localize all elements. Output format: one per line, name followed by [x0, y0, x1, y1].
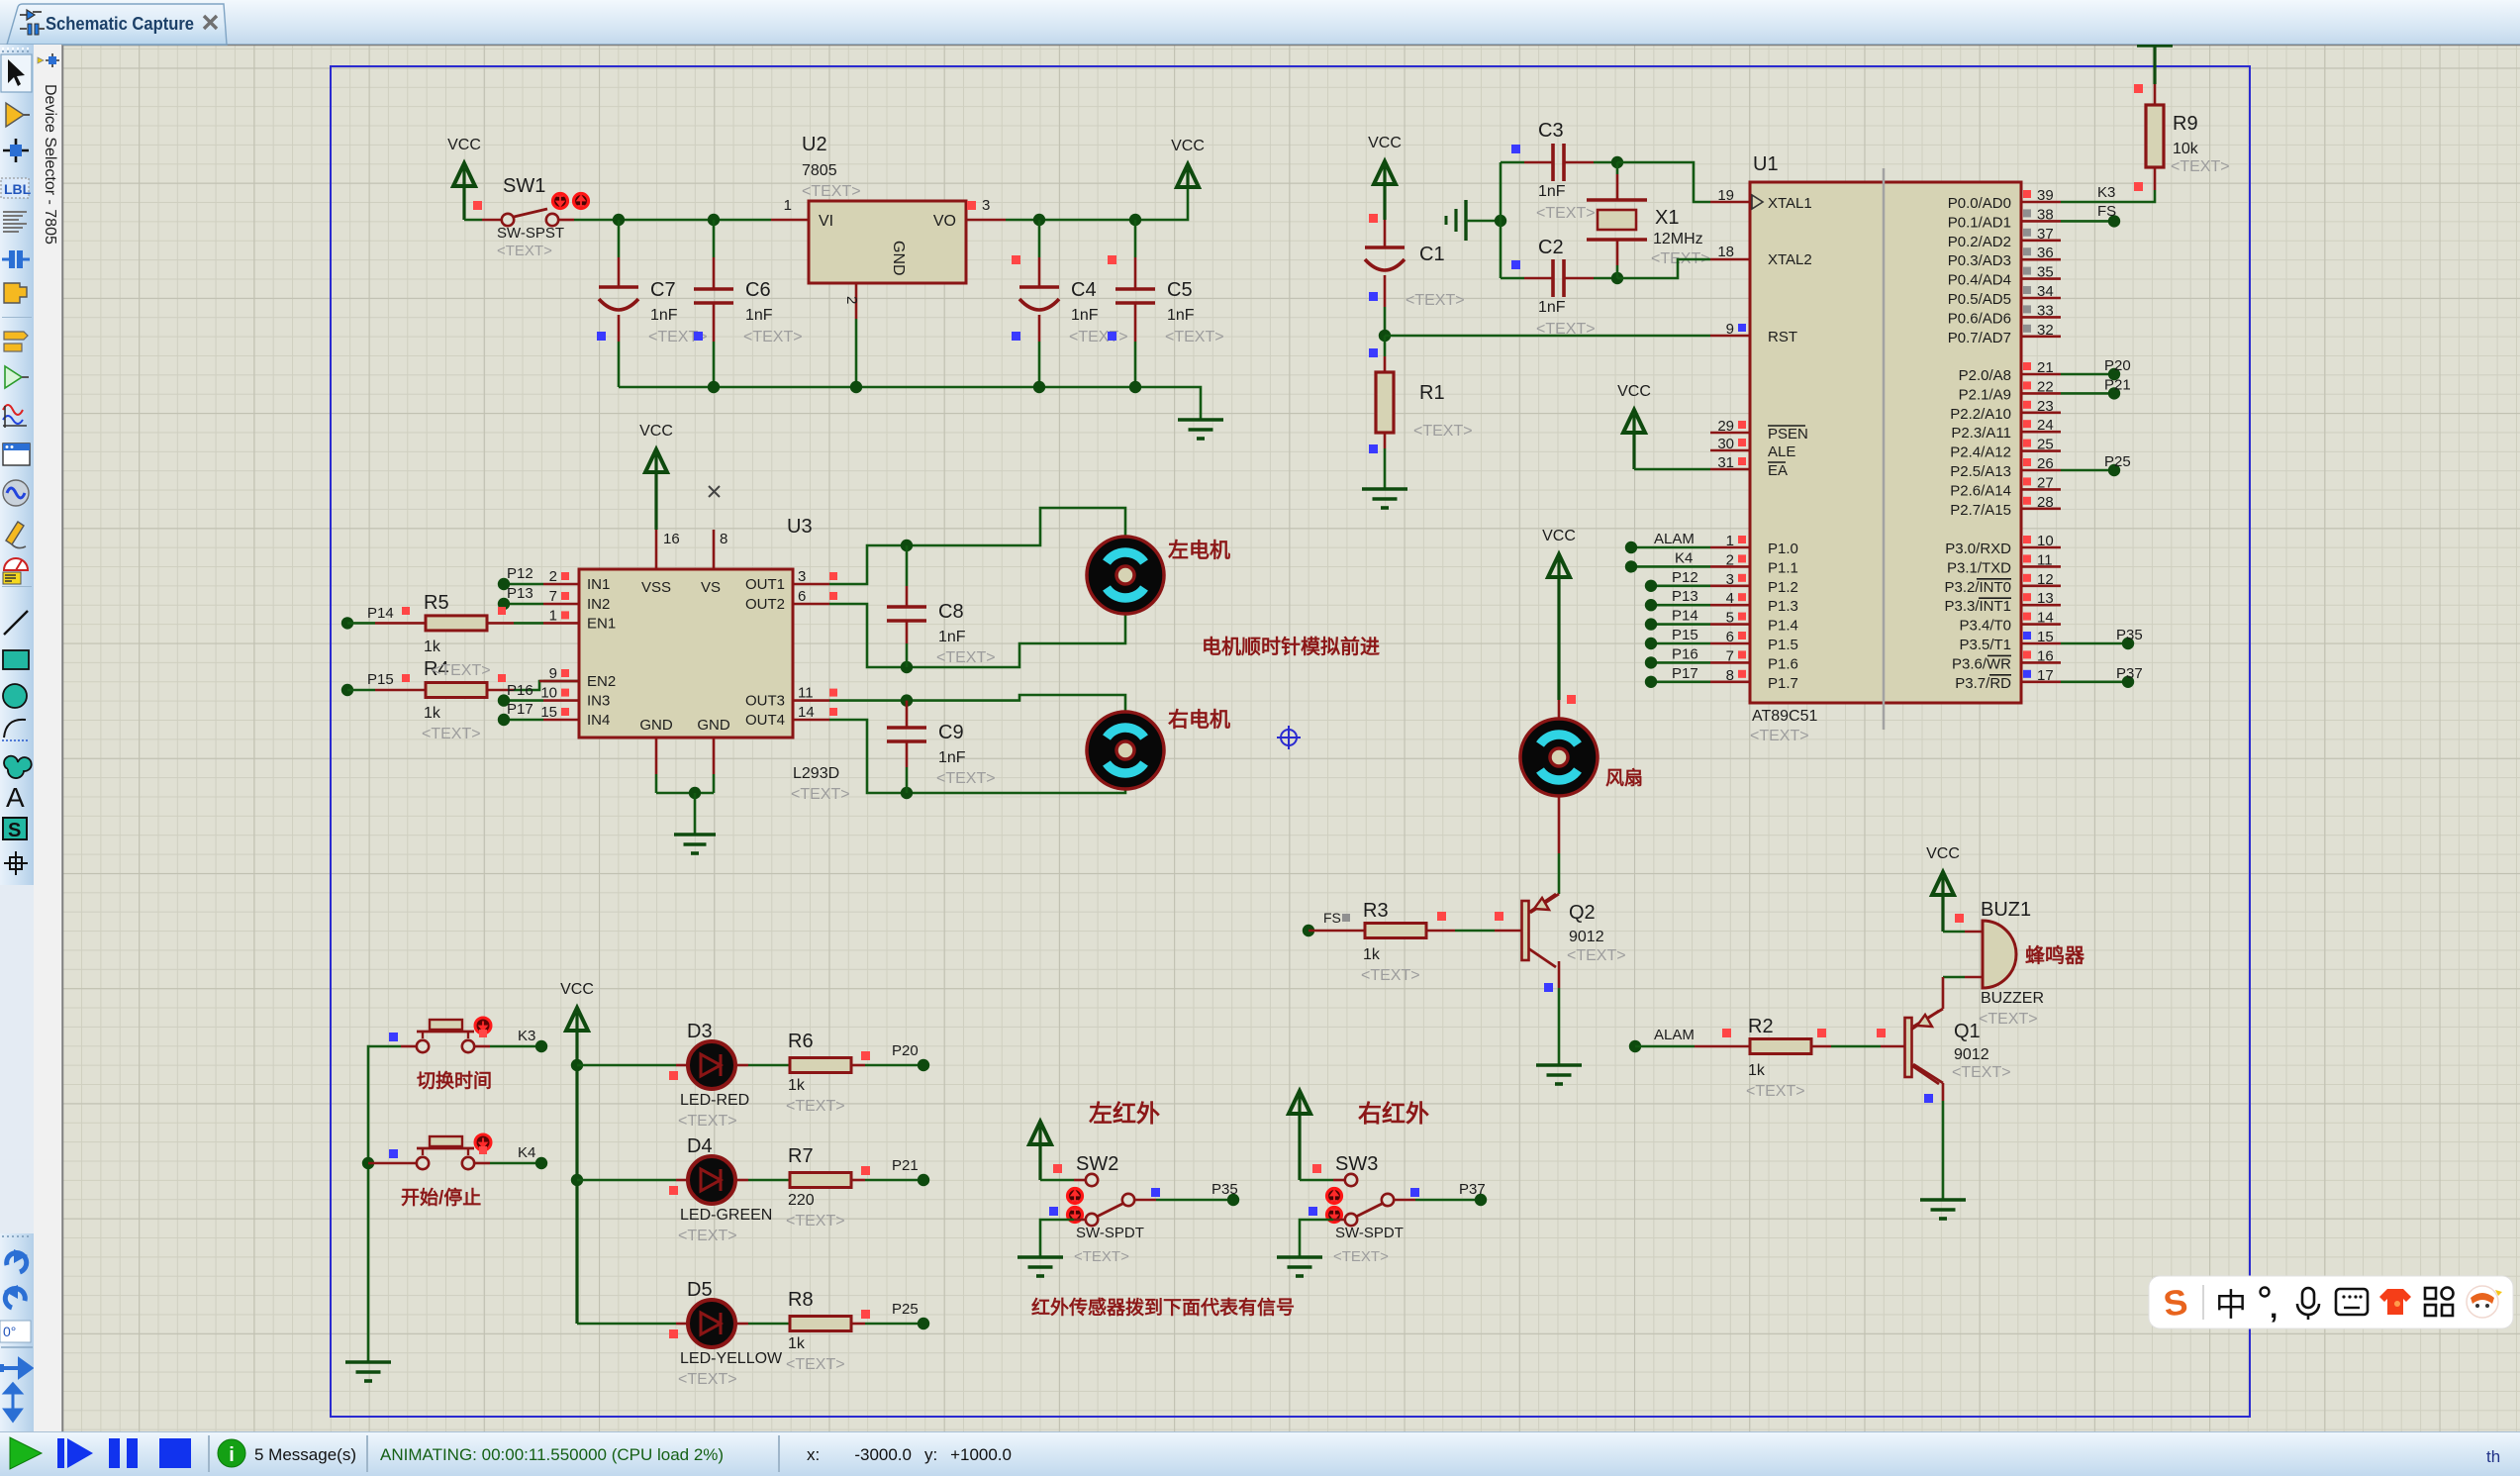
- svg-text:9: 9: [549, 665, 557, 682]
- svg-text:EN1: EN1: [587, 615, 616, 632]
- svg-text:FS: FS: [1323, 910, 1341, 926]
- svg-text:P2.4/A12: P2.4/A12: [1950, 444, 2011, 461]
- svg-text:P25: P25: [2104, 453, 2131, 470]
- svg-text:<TEXT>: <TEXT>: [1413, 423, 1473, 440]
- svg-text:P0.7/AD7: P0.7/AD7: [1948, 330, 2011, 346]
- svg-text:<TEXT>: <TEXT>: [497, 243, 552, 259]
- svg-text:P20: P20: [2104, 357, 2131, 374]
- svg-text:P14: P14: [367, 605, 394, 622]
- svg-text:ANIMATING: 00:00:11.550000 (CP: ANIMATING: 00:00:11.550000 (CPU load 2%): [380, 1445, 724, 1464]
- svg-text:<TEXT>: <TEXT>: [1333, 1248, 1389, 1265]
- svg-text:P3.1/TXD: P3.1/TXD: [1947, 559, 2011, 576]
- svg-text:2: 2: [843, 296, 860, 304]
- svg-text:K3: K3: [518, 1028, 535, 1044]
- svg-text:GND: GND: [697, 717, 730, 734]
- svg-text:P16: P16: [507, 682, 533, 699]
- svg-text:220: 220: [788, 1192, 815, 1209]
- svg-text:IN3: IN3: [587, 693, 610, 710]
- svg-text:VCC: VCC: [1368, 135, 1402, 151]
- svg-text:<TEXT>: <TEXT>: [743, 329, 803, 345]
- svg-text:P0.1/AD1: P0.1/AD1: [1948, 214, 2011, 231]
- svg-text:<TEXT>: <TEXT>: [936, 770, 996, 787]
- svg-text:K4: K4: [1675, 549, 1693, 566]
- svg-text:C1: C1: [1419, 244, 1445, 265]
- svg-text:IN1: IN1: [587, 576, 610, 593]
- svg-text:P21: P21: [2104, 376, 2131, 393]
- svg-text:中: 中: [2215, 1287, 2247, 1323]
- svg-text:P2.7/A15: P2.7/A15: [1950, 502, 2011, 519]
- svg-text:18: 18: [1717, 244, 1734, 260]
- svg-text:1k: 1k: [1748, 1062, 1766, 1079]
- svg-text:<TEXT>: <TEXT>: [1361, 967, 1420, 984]
- svg-text:P3.3/INT1: P3.3/INT1: [1944, 598, 2011, 615]
- svg-text:<TEXT>: <TEXT>: [1567, 947, 1626, 964]
- svg-text:P15: P15: [1672, 627, 1698, 643]
- svg-text:VCC: VCC: [639, 423, 673, 440]
- svg-text:SW3: SW3: [1335, 1153, 1378, 1175]
- svg-text:1nF: 1nF: [938, 629, 966, 645]
- svg-text:P17: P17: [507, 701, 533, 718]
- svg-text:0°: 0°: [3, 1324, 16, 1339]
- svg-text:U2: U2: [802, 134, 827, 155]
- svg-text:VCC: VCC: [1171, 138, 1205, 154]
- svg-text:P17: P17: [1672, 665, 1698, 682]
- svg-text:1k: 1k: [788, 1077, 806, 1094]
- svg-text:2: 2: [549, 568, 557, 585]
- svg-text:Q1: Q1: [1954, 1021, 1981, 1042]
- svg-text:SW-SPDT: SW-SPDT: [1076, 1225, 1144, 1241]
- svg-text:31: 31: [1717, 454, 1734, 471]
- svg-text:<TEXT>: <TEXT>: [678, 1228, 737, 1244]
- svg-text:SW-SPDT: SW-SPDT: [1335, 1225, 1404, 1241]
- svg-text:D4: D4: [687, 1135, 713, 1157]
- svg-text:BUZZER: BUZZER: [1981, 990, 2044, 1007]
- svg-text:P3.5/T1: P3.5/T1: [1959, 637, 2011, 653]
- svg-text:C6: C6: [745, 279, 771, 301]
- svg-text:th: th: [2486, 1447, 2500, 1466]
- svg-text:1: 1: [549, 607, 557, 624]
- svg-text:P13: P13: [507, 585, 533, 602]
- svg-text:A: A: [6, 782, 25, 813]
- svg-text:7805: 7805: [802, 162, 837, 179]
- svg-text:9012: 9012: [1569, 929, 1604, 945]
- svg-text:<TEXT>: <TEXT>: [2171, 158, 2230, 175]
- svg-text:,: ,: [2270, 1292, 2278, 1325]
- svg-text:<TEXT>: <TEXT>: [1750, 728, 1809, 744]
- svg-text:P0.6/AD6: P0.6/AD6: [1948, 310, 2011, 327]
- svg-text:ALAM: ALAM: [1654, 531, 1695, 547]
- svg-text:10: 10: [540, 685, 557, 702]
- svg-text:R8: R8: [788, 1289, 814, 1311]
- svg-text:R7: R7: [788, 1145, 814, 1167]
- svg-text:P12: P12: [1672, 569, 1698, 586]
- svg-text:P20: P20: [892, 1042, 919, 1059]
- svg-text:10k: 10k: [2173, 141, 2199, 157]
- svg-text:P12: P12: [507, 565, 533, 582]
- svg-text:3: 3: [982, 197, 990, 214]
- svg-text:<TEXT>: <TEXT>: [802, 183, 861, 200]
- svg-text:P16: P16: [1672, 645, 1698, 662]
- svg-text:<TEXT>: <TEXT>: [786, 1098, 845, 1115]
- svg-text:1nF: 1nF: [650, 307, 678, 324]
- svg-text:P1.3: P1.3: [1768, 598, 1798, 615]
- svg-text:Schematic Capture: Schematic Capture: [46, 13, 194, 34]
- svg-text:左红外: 左红外: [1089, 1100, 1160, 1128]
- svg-text:<TEXT>: <TEXT>: [786, 1356, 845, 1373]
- svg-text:VCC: VCC: [1542, 528, 1576, 544]
- svg-text:U1: U1: [1753, 153, 1779, 175]
- svg-text:R6: R6: [788, 1031, 814, 1052]
- svg-text:PSEN: PSEN: [1768, 426, 1808, 443]
- svg-text:<TEXT>: <TEXT>: [422, 726, 481, 742]
- svg-text:C5: C5: [1167, 279, 1193, 301]
- svg-text:<TEXT>: <TEXT>: [936, 649, 996, 666]
- svg-text:GND: GND: [890, 241, 907, 276]
- svg-text:P2.5/A13: P2.5/A13: [1950, 463, 2011, 480]
- svg-text:右红外: 右红外: [1358, 1100, 1429, 1128]
- svg-text:14: 14: [798, 704, 815, 721]
- svg-text:OUT4: OUT4: [745, 712, 785, 729]
- svg-text:风扇: 风扇: [1605, 766, 1643, 789]
- svg-text:P2.0/A8: P2.0/A8: [1959, 367, 2011, 384]
- svg-text:VSS: VSS: [641, 579, 671, 596]
- svg-text:P0.3/AD3: P0.3/AD3: [1948, 252, 2011, 269]
- svg-text:P1.1: P1.1: [1768, 559, 1798, 576]
- svg-text:P37: P37: [1459, 1181, 1486, 1198]
- svg-text:<TEXT>: <TEXT>: [1979, 1011, 2038, 1028]
- svg-text:1nF: 1nF: [1538, 299, 1566, 316]
- svg-text:EN2: EN2: [587, 673, 616, 690]
- svg-text:VI: VI: [819, 213, 833, 230]
- svg-text:K3: K3: [2097, 184, 2115, 201]
- svg-text:P1.4: P1.4: [1768, 618, 1798, 635]
- svg-text:1k: 1k: [788, 1335, 806, 1352]
- svg-text:K4: K4: [518, 1144, 535, 1161]
- svg-text:<TEXT>: <TEXT>: [1405, 292, 1465, 309]
- svg-text:VO: VO: [933, 213, 956, 230]
- svg-text:P2.2/A10: P2.2/A10: [1950, 406, 2011, 423]
- svg-text:P3.7/RD: P3.7/RD: [1955, 675, 2011, 692]
- svg-text:P0.5/AD5: P0.5/AD5: [1948, 291, 2011, 308]
- svg-text:VCC: VCC: [1926, 845, 1960, 862]
- svg-text:OUT1: OUT1: [745, 576, 785, 593]
- svg-text:切换时间: 切换时间: [417, 1069, 492, 1092]
- svg-text:XTAL2: XTAL2: [1768, 251, 1812, 268]
- svg-text:12MHz: 12MHz: [1653, 231, 1703, 247]
- svg-text:P3.0/RXD: P3.0/RXD: [1945, 541, 2011, 557]
- svg-text:P1.6: P1.6: [1768, 655, 1798, 672]
- svg-text:GND: GND: [639, 717, 673, 734]
- svg-text:P1.0: P1.0: [1768, 541, 1798, 557]
- svg-text:15: 15: [540, 704, 557, 721]
- svg-text:P14: P14: [1672, 608, 1698, 625]
- svg-text:C3: C3: [1538, 120, 1564, 142]
- svg-text:OUT3: OUT3: [745, 693, 785, 710]
- svg-text:1nF: 1nF: [1538, 183, 1566, 200]
- svg-text:i: i: [229, 1444, 235, 1466]
- svg-text:P35: P35: [1212, 1181, 1238, 1198]
- svg-text:D5: D5: [687, 1279, 713, 1301]
- svg-text:16: 16: [663, 531, 680, 547]
- svg-text:P2.6/A14: P2.6/A14: [1950, 482, 2011, 499]
- svg-text:<TEXT>: <TEXT>: [1746, 1083, 1805, 1100]
- svg-text:ALE: ALE: [1768, 443, 1795, 460]
- svg-text:左电机: 左电机: [1168, 539, 1230, 562]
- svg-text:P13: P13: [1672, 588, 1698, 605]
- svg-text:开始/停止: 开始/停止: [401, 1186, 481, 1209]
- svg-text:P3.6/WR: P3.6/WR: [1952, 655, 2011, 672]
- svg-text:P3.4/T0: P3.4/T0: [1959, 618, 2011, 635]
- svg-text:<TEXT>: <TEXT>: [786, 1213, 845, 1230]
- svg-text:19: 19: [1717, 187, 1734, 204]
- svg-text:1nF: 1nF: [745, 307, 773, 324]
- svg-text:D3: D3: [687, 1021, 713, 1042]
- svg-text:ALAM: ALAM: [1654, 1027, 1695, 1043]
- svg-text:R1: R1: [1419, 382, 1445, 404]
- svg-text:SW1: SW1: [503, 175, 545, 197]
- svg-text:C7: C7: [650, 279, 676, 301]
- svg-text:OUT2: OUT2: [745, 596, 785, 613]
- svg-text:P1.2: P1.2: [1768, 579, 1798, 596]
- svg-text:R2: R2: [1748, 1016, 1774, 1037]
- svg-text:P0.4/AD4: P0.4/AD4: [1948, 272, 2011, 289]
- svg-text:LED-YELLOW: LED-YELLOW: [680, 1350, 783, 1367]
- svg-text:P37: P37: [2116, 665, 2143, 682]
- svg-text:RST: RST: [1768, 329, 1797, 345]
- svg-text:C4: C4: [1071, 279, 1097, 301]
- svg-text:FS: FS: [2097, 203, 2116, 220]
- svg-text:R3: R3: [1363, 900, 1389, 922]
- svg-text:9012: 9012: [1954, 1046, 1989, 1063]
- svg-text:<TEXT>: <TEXT>: [1952, 1064, 2011, 1081]
- svg-text:1nF: 1nF: [1167, 307, 1195, 324]
- svg-text:Device Selector - 7805: Device Selector - 7805: [42, 84, 58, 245]
- svg-text:电机顺时针模拟前进: 电机顺时针模拟前进: [1202, 635, 1380, 658]
- svg-text:P3.2/INT0: P3.2/INT0: [1944, 579, 2011, 596]
- svg-text:y:: y:: [924, 1445, 937, 1464]
- svg-text:AT89C51: AT89C51: [1752, 708, 1818, 725]
- svg-text:VCC: VCC: [447, 137, 481, 153]
- svg-text:X1: X1: [1655, 207, 1679, 229]
- svg-text:XTAL1: XTAL1: [1768, 195, 1812, 212]
- svg-text:VS: VS: [701, 579, 721, 596]
- svg-text:<TEXT>: <TEXT>: [791, 786, 850, 803]
- svg-text:8: 8: [720, 531, 727, 547]
- svg-text:U3: U3: [787, 516, 813, 538]
- svg-text:Q2: Q2: [1569, 902, 1596, 924]
- svg-text:1nF: 1nF: [1071, 307, 1099, 324]
- svg-text:P35: P35: [2116, 627, 2143, 643]
- svg-text:11: 11: [798, 685, 814, 702]
- svg-text:BUZ1: BUZ1: [1981, 899, 2031, 921]
- svg-text:IN4: IN4: [587, 712, 610, 729]
- svg-text:<TEXT>: <TEXT>: [432, 662, 491, 679]
- svg-text:-3000.0: -3000.0: [854, 1445, 912, 1464]
- svg-text:9: 9: [1726, 321, 1734, 338]
- svg-text:SW-SPST: SW-SPST: [497, 225, 564, 242]
- svg-text:VCC: VCC: [1617, 383, 1651, 400]
- svg-text:1nF: 1nF: [938, 749, 966, 766]
- svg-text:蜂鸣器: 蜂鸣器: [2025, 943, 2085, 967]
- svg-text:5 Message(s): 5 Message(s): [254, 1445, 356, 1464]
- svg-text:3: 3: [798, 568, 806, 585]
- svg-text:红外传感器拨到下面代表有信号: 红外传感器拨到下面代表有信号: [1031, 1296, 1295, 1319]
- svg-text:P0.0/AD0: P0.0/AD0: [1948, 195, 2011, 212]
- svg-text:P21: P21: [892, 1157, 919, 1174]
- svg-text:7: 7: [549, 588, 557, 605]
- svg-text:P25: P25: [892, 1301, 919, 1318]
- svg-text:P2.3/A11: P2.3/A11: [1951, 425, 2011, 442]
- svg-text:EA: EA: [1768, 462, 1788, 479]
- svg-text:<TEXT>: <TEXT>: [678, 1113, 737, 1130]
- svg-text:x:: x:: [807, 1445, 820, 1464]
- svg-text:LED-RED: LED-RED: [680, 1092, 749, 1109]
- svg-text:<TEXT>: <TEXT>: [678, 1371, 737, 1388]
- svg-text:S: S: [8, 820, 21, 841]
- svg-text:<TEXT>: <TEXT>: [1536, 205, 1596, 222]
- svg-text:P0.2/AD2: P0.2/AD2: [1948, 234, 2011, 250]
- svg-text:C9: C9: [938, 722, 964, 743]
- svg-text:R9: R9: [2173, 113, 2198, 135]
- svg-text:C8: C8: [938, 601, 964, 623]
- svg-text:C2: C2: [1538, 237, 1564, 258]
- svg-text:6: 6: [798, 588, 806, 605]
- svg-text:<TEXT>: <TEXT>: [1069, 329, 1128, 345]
- svg-text:P1.7: P1.7: [1768, 675, 1798, 692]
- svg-text:IN2: IN2: [587, 596, 610, 613]
- svg-text:1k: 1k: [424, 639, 441, 655]
- svg-text:L293D: L293D: [793, 765, 839, 782]
- svg-text:+1000.0: +1000.0: [950, 1445, 1012, 1464]
- svg-text:<TEXT>: <TEXT>: [1165, 329, 1224, 345]
- svg-text:P2.1/A9: P2.1/A9: [1959, 386, 2011, 403]
- svg-text:P1.5: P1.5: [1768, 637, 1798, 653]
- svg-text:右电机: 右电机: [1168, 708, 1230, 732]
- svg-text:1: 1: [784, 197, 792, 214]
- svg-text:1k: 1k: [1363, 946, 1381, 963]
- svg-text:LBL: LBL: [4, 181, 32, 197]
- svg-text:R5: R5: [424, 592, 449, 614]
- svg-text:LED-GREEN: LED-GREEN: [680, 1207, 772, 1224]
- svg-text:VCC: VCC: [560, 981, 594, 998]
- svg-text:1k: 1k: [424, 705, 441, 722]
- svg-text:SW2: SW2: [1076, 1153, 1118, 1175]
- svg-text:P15: P15: [367, 671, 394, 688]
- svg-text:<TEXT>: <TEXT>: [1074, 1248, 1129, 1265]
